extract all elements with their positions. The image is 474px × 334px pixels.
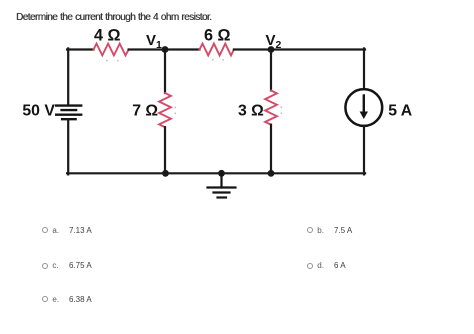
- resistor R1 4 ohm (horizontal): [94, 44, 129, 56]
- wire: 3-ohm branch top: [270, 50, 272, 91]
- wire: top segment between R1 and R2: [129, 48, 200, 50]
- svg-text:V1: V1: [146, 32, 162, 51]
- option a value: [69, 226, 92, 235]
- resistor R4 3 ohm (vertical): [265, 91, 277, 125]
- svg-text:50 V: 50 V: [22, 103, 55, 120]
- option d value: [334, 261, 346, 270]
- option c radio: [42, 263, 48, 269]
- battery source 50 V: [56, 106, 81, 120]
- option b letter: [317, 226, 324, 235]
- option e radio: [42, 296, 48, 302]
- wire: bottom horizontal rail: [67, 172, 365, 174]
- option b value: [334, 226, 352, 235]
- wire: right vertical top (into current source): [363, 48, 365, 89]
- option b radio: [307, 227, 313, 233]
- wire: top-right horizontal segment: [234, 48, 365, 50]
- node V2 junction dot: [268, 46, 275, 53]
- option c letter: [52, 261, 58, 270]
- question title: [16, 12, 211, 23]
- wire: top-left horizontal segment: [67, 48, 93, 50]
- wire: right vertical bottom (current source to bottom rail): [363, 126, 365, 174]
- option d letter: [317, 261, 324, 270]
- resistor R2 6 ohm (horizontal): [200, 44, 234, 56]
- option e value: [69, 295, 92, 304]
- option a radio: [42, 227, 48, 233]
- wire: 3-ohm branch bottom: [270, 125, 272, 174]
- current source I1 5 A (circle with downward arrow): [345, 89, 382, 126]
- wire: left vertical top (into battery): [67, 48, 69, 105]
- svg-text:5 A: 5 A: [388, 103, 412, 120]
- option c value: [69, 261, 92, 270]
- option e letter: [52, 295, 59, 304]
- option a letter: [52, 226, 59, 235]
- wire: 7-ohm branch top: [164, 50, 166, 94]
- ground symbol: [208, 173, 236, 197]
- wire: left vertical bottom (battery to bottom rail): [67, 119, 69, 174]
- svg-text:7 Ω: 7 Ω: [132, 103, 158, 120]
- option d radio: [307, 263, 313, 269]
- ground junction dot: [218, 170, 225, 177]
- svg-text:6 Ω: 6 Ω: [204, 27, 231, 45]
- svg-text:4 Ω: 4 Ω: [94, 27, 121, 45]
- junction dot at bottom of 7-ohm branch: [162, 170, 169, 177]
- resistor R3 7 ohm (vertical): [159, 93, 171, 127]
- wire: 7-ohm branch bottom: [164, 127, 166, 173]
- svg-text:3 Ω: 3 Ω: [238, 103, 264, 120]
- junction dot at bottom of 3-ohm branch: [268, 170, 275, 177]
- node V1 junction dot: [162, 46, 169, 53]
